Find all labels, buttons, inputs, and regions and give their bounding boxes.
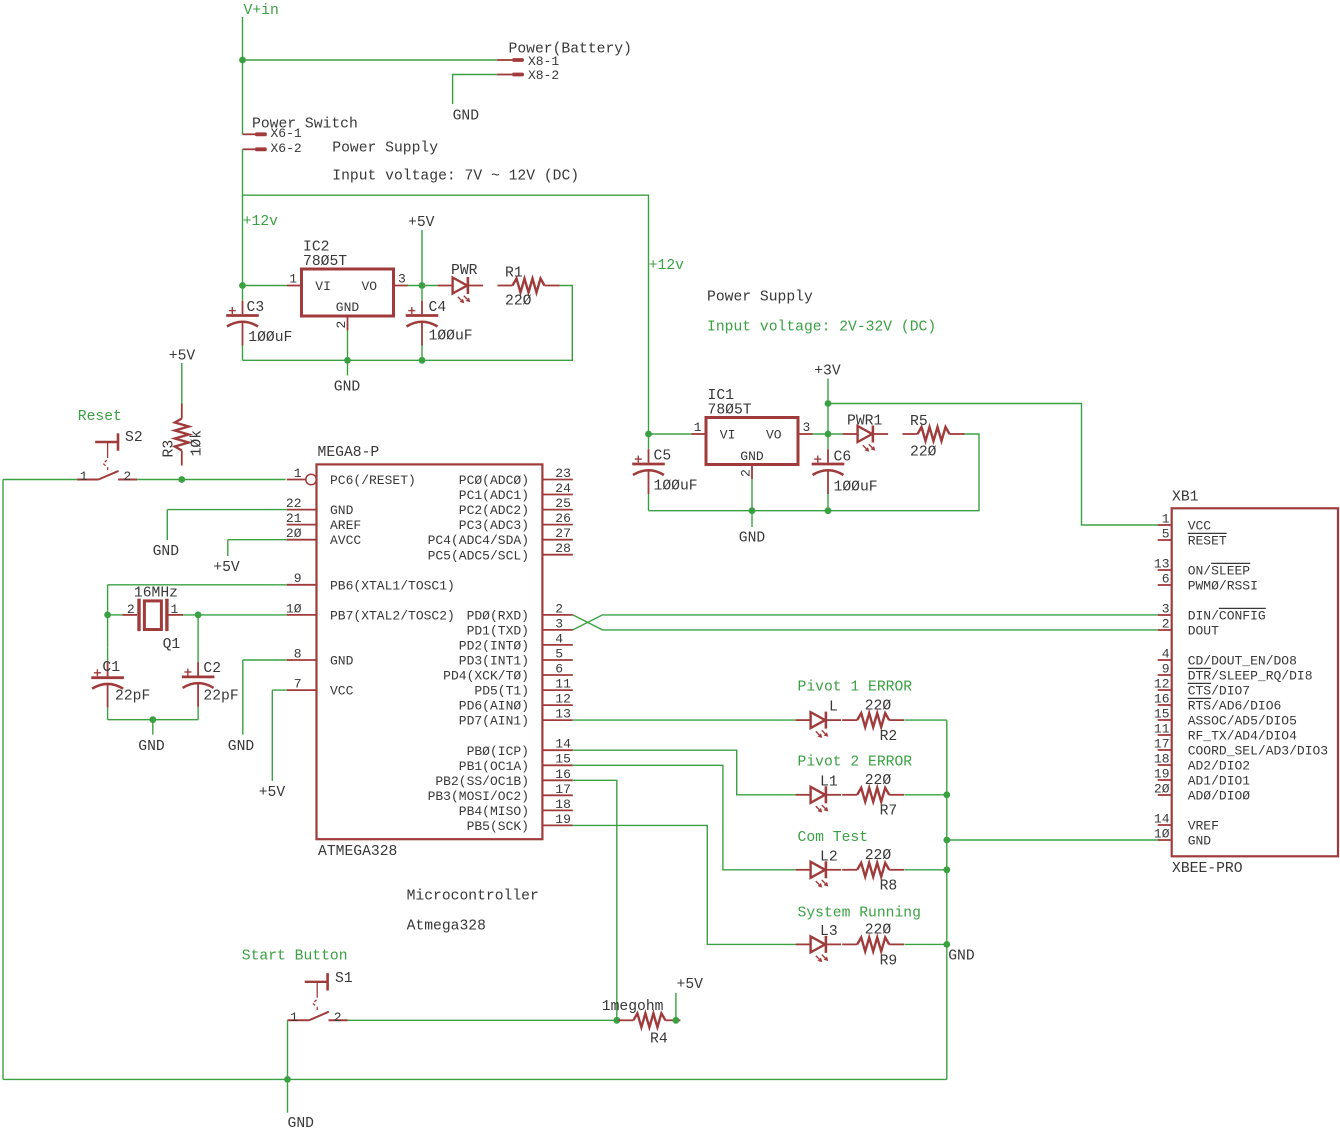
svg-text:V+in: V+in (244, 3, 279, 19)
svg-text:+12v: +12v (243, 214, 278, 230)
svg-text:R9: R9 (880, 953, 898, 969)
svg-text:IC1: IC1 (708, 388, 735, 404)
svg-text:1Ø: 1Ø (1154, 827, 1170, 842)
svg-text:15: 15 (1154, 707, 1170, 722)
svg-text:VO: VO (361, 279, 377, 294)
svg-text:CD/DOUT_EN/DO8: CD/DOUT_EN/DO8 (1188, 654, 1297, 669)
svg-text:8: 8 (294, 646, 302, 661)
svg-text:28: 28 (555, 541, 571, 556)
svg-text:9: 9 (1162, 662, 1170, 677)
svg-text:+5V: +5V (677, 977, 704, 993)
svg-text:22Ø: 22Ø (865, 698, 892, 714)
svg-text:GND: GND (153, 544, 180, 560)
svg-text:GND: GND (948, 949, 975, 965)
svg-text:R4: R4 (650, 1032, 668, 1048)
svg-text:1: 1 (1162, 512, 1170, 527)
svg-text:RF_TX/AD4/DIO4: RF_TX/AD4/DIO4 (1188, 729, 1297, 744)
svg-text:22Ø: 22Ø (865, 923, 892, 939)
svg-text:PB2(SS/OC1B): PB2(SS/OC1B) (435, 774, 529, 789)
svg-text:3: 3 (803, 420, 811, 435)
svg-text:22Ø: 22Ø (865, 773, 892, 789)
svg-text:Com Test: Com Test (798, 830, 869, 846)
svg-text:R8: R8 (880, 879, 898, 895)
svg-text:25: 25 (555, 496, 571, 511)
svg-text:5: 5 (1162, 527, 1170, 542)
svg-text:18: 18 (1154, 752, 1170, 767)
svg-text:X6-1: X6-1 (271, 126, 302, 141)
svg-text:CTS/DIO7: CTS/DIO7 (1188, 684, 1250, 699)
svg-text:AD1/DIO1: AD1/DIO1 (1188, 774, 1251, 789)
svg-text:RTS/AD6/DIO6: RTS/AD6/DIO6 (1188, 699, 1282, 714)
svg-text:XBEE-PRO: XBEE-PRO (1172, 861, 1243, 877)
svg-text:GND: GND (334, 379, 361, 395)
svg-text:2: 2 (123, 469, 131, 484)
svg-text:PB4(MISO): PB4(MISO) (459, 804, 529, 819)
svg-text:17: 17 (1154, 737, 1170, 752)
svg-text:3: 3 (555, 616, 563, 631)
svg-text:GND: GND (138, 739, 165, 755)
svg-text:3: 3 (398, 271, 406, 286)
svg-text:L1: L1 (820, 774, 838, 790)
svg-text:AREF: AREF (330, 518, 361, 533)
svg-text:22Ø: 22Ø (910, 445, 937, 461)
svg-text:X6-2: X6-2 (271, 141, 302, 156)
svg-text:PB7(XTAL2/TOSC2): PB7(XTAL2/TOSC2) (330, 608, 455, 623)
svg-text:IC2: IC2 (303, 239, 329, 255)
svg-text:X8-2: X8-2 (528, 68, 559, 83)
svg-text:+12v: +12v (649, 258, 684, 274)
svg-text:VI: VI (315, 279, 331, 294)
svg-text:GND: GND (330, 654, 354, 669)
svg-text:22Ø: 22Ø (865, 848, 892, 864)
svg-text:1: 1 (294, 466, 302, 481)
svg-text:MEGA8-P: MEGA8-P (318, 445, 380, 461)
svg-text:1ØØuF: 1ØØuF (248, 330, 292, 346)
svg-text:1ØØuF: 1ØØuF (834, 479, 878, 495)
svg-text:12: 12 (555, 692, 571, 707)
svg-text:21: 21 (286, 511, 302, 526)
svg-text:C5: C5 (654, 448, 672, 464)
svg-text:PD5(T1): PD5(T1) (474, 684, 529, 699)
svg-text:GND: GND (453, 109, 480, 125)
svg-text:19: 19 (1154, 767, 1170, 782)
svg-text:R3: R3 (162, 440, 178, 458)
svg-text:C3: C3 (247, 300, 265, 316)
svg-text:RESET: RESET (1188, 534, 1227, 549)
svg-text:PBØ(ICP): PBØ(ICP) (467, 744, 529, 759)
svg-text:+5V: +5V (169, 349, 196, 365)
svg-text:PC3(ADC3): PC3(ADC3) (459, 518, 529, 533)
svg-text:PD3(INT1): PD3(INT1) (459, 654, 529, 669)
svg-text:X8-1: X8-1 (528, 54, 559, 69)
svg-text:AVCC: AVCC (330, 533, 361, 548)
svg-text:VI: VI (720, 428, 736, 443)
svg-text:3: 3 (1162, 602, 1170, 617)
svg-text:1: 1 (290, 1010, 298, 1025)
svg-text:2Ø: 2Ø (1154, 782, 1170, 797)
svg-text:16: 16 (1154, 692, 1170, 707)
svg-text:S1: S1 (335, 971, 353, 987)
svg-text:R5: R5 (910, 414, 928, 430)
svg-text:1Ø: 1Ø (286, 601, 302, 616)
svg-text:PC2(ADC2): PC2(ADC2) (459, 503, 529, 518)
svg-text:16: 16 (555, 767, 571, 782)
svg-text:14: 14 (1154, 812, 1170, 827)
svg-text:Start Button: Start Button (242, 949, 348, 965)
svg-text:9: 9 (294, 571, 302, 586)
svg-text:PD4(XCK/TØ): PD4(XCK/TØ) (443, 669, 529, 684)
svg-text:PDØ(RXD): PDØ(RXD) (467, 608, 529, 623)
svg-text:PC6(/RESET): PC6(/RESET) (330, 473, 416, 488)
svg-text:23: 23 (555, 466, 571, 481)
svg-text:2: 2 (1162, 617, 1170, 632)
svg-text:GND: GND (330, 503, 354, 518)
svg-text:22pF: 22pF (115, 688, 150, 704)
svg-text:PD6(AINØ): PD6(AINØ) (459, 699, 529, 714)
svg-text:2: 2 (334, 1010, 342, 1025)
svg-text:18: 18 (555, 797, 571, 812)
svg-text:11: 11 (1154, 722, 1170, 737)
svg-text:22: 22 (286, 496, 302, 511)
svg-text:+5V: +5V (408, 215, 435, 231)
svg-text:R7: R7 (880, 804, 898, 820)
svg-text:PB5(SCK): PB5(SCK) (467, 819, 529, 834)
svg-text:22Ø: 22Ø (505, 293, 532, 309)
svg-text:+5V: +5V (259, 785, 286, 801)
svg-text:DOUT: DOUT (1188, 624, 1219, 639)
svg-text:ADØ/DIOØ: ADØ/DIOØ (1188, 789, 1251, 804)
svg-text:26: 26 (555, 511, 571, 526)
svg-text:16MHz: 16MHz (134, 585, 178, 601)
svg-text:System Running: System Running (798, 905, 921, 921)
svg-text:Power(Battery): Power(Battery) (509, 41, 632, 57)
svg-text:PD7(AIN1): PD7(AIN1) (459, 714, 529, 729)
svg-text:L2: L2 (820, 849, 838, 865)
svg-text:1Øk: 1Øk (190, 430, 206, 457)
svg-text:R2: R2 (880, 729, 898, 745)
svg-text:GND: GND (740, 449, 764, 464)
svg-text:ON/SLEEP: ON/SLEEP (1188, 564, 1251, 579)
svg-text:1: 1 (80, 469, 88, 484)
svg-text:Power Switch: Power Switch (252, 116, 358, 132)
svg-text:PB3(MOSI/OC2): PB3(MOSI/OC2) (428, 789, 529, 804)
svg-text:ATMEGA328: ATMEGA328 (318, 844, 397, 860)
svg-text:PC5(ADC5/SCL): PC5(ADC5/SCL) (428, 548, 529, 563)
svg-text:1ØØuF: 1ØØuF (429, 329, 473, 345)
svg-text:78Ø5T: 78Ø5T (303, 254, 347, 270)
svg-text:Pivot 1 ERROR: Pivot 1 ERROR (798, 680, 913, 696)
svg-text:24: 24 (555, 481, 571, 496)
svg-text:15: 15 (555, 752, 571, 767)
svg-text:Pivot 2 ERROR: Pivot 2 ERROR (798, 754, 913, 770)
svg-text:4: 4 (1162, 647, 1170, 662)
svg-text:1: 1 (694, 420, 702, 435)
svg-text:27: 27 (555, 526, 571, 541)
svg-text:C1: C1 (102, 660, 120, 676)
svg-text:XB1: XB1 (1172, 490, 1199, 506)
svg-text:Microcontroller: Microcontroller (407, 888, 539, 904)
svg-text:DTR/SLEEP_RQ/DI8: DTR/SLEEP_RQ/DI8 (1188, 669, 1313, 684)
svg-text:17: 17 (555, 782, 571, 797)
svg-text:PC1(ADC1): PC1(ADC1) (459, 488, 529, 503)
svg-text:22pF: 22pF (203, 689, 238, 705)
svg-text:2: 2 (127, 602, 135, 617)
svg-text:78Ø5T: 78Ø5T (708, 403, 752, 419)
svg-text:Input voltage: 7V ~ 12V (DC): Input voltage: 7V ~ 12V (DC) (332, 168, 579, 184)
svg-text:1ØØuF: 1ØØuF (654, 478, 698, 494)
svg-text:6: 6 (1162, 572, 1170, 587)
svg-text:4: 4 (555, 631, 563, 646)
svg-text:PD2(INTØ): PD2(INTØ) (459, 639, 529, 654)
svg-text:19: 19 (555, 812, 571, 827)
svg-text:Reset: Reset (78, 409, 122, 425)
svg-text:7: 7 (294, 677, 302, 692)
svg-text:11: 11 (555, 677, 571, 692)
svg-text:13: 13 (1154, 557, 1170, 572)
svg-text:GND: GND (288, 1116, 315, 1130)
svg-text:PWMØ/RSSI: PWMØ/RSSI (1188, 579, 1258, 594)
svg-text:+5V: +5V (213, 560, 240, 576)
svg-text:PB6(XTAL1/TOSC1): PB6(XTAL1/TOSC1) (330, 578, 455, 593)
svg-text:R1: R1 (505, 265, 523, 281)
svg-text:C4: C4 (429, 300, 447, 316)
svg-text:2: 2 (739, 469, 754, 477)
svg-text:GND: GND (228, 739, 255, 755)
svg-text:S2: S2 (125, 430, 143, 446)
svg-text:2Ø: 2Ø (286, 526, 302, 541)
svg-text:2: 2 (334, 321, 349, 329)
svg-text:Power Supply: Power Supply (332, 140, 438, 156)
svg-text:L: L (829, 700, 838, 716)
svg-text:DIN/CONFIG: DIN/CONFIG (1188, 609, 1266, 624)
svg-text:VREF: VREF (1188, 819, 1219, 834)
svg-text:C6: C6 (834, 449, 852, 465)
svg-text:PC4(ADC4/SDA): PC4(ADC4/SDA) (428, 533, 529, 548)
svg-text:AD2/DIO2: AD2/DIO2 (1188, 759, 1250, 774)
svg-text:2: 2 (555, 601, 563, 616)
svg-text:PWR1: PWR1 (847, 413, 882, 429)
svg-text:13: 13 (555, 707, 571, 722)
svg-text:COORD_SEL/AD3/DIO3: COORD_SEL/AD3/DIO3 (1188, 744, 1328, 759)
svg-text:Atmega328: Atmega328 (407, 919, 486, 935)
svg-text:VCC: VCC (1188, 519, 1212, 534)
svg-text:PD1(TXD): PD1(TXD) (467, 624, 529, 639)
svg-text:+3V: +3V (814, 364, 841, 380)
svg-text:VCC: VCC (330, 684, 354, 699)
svg-text:12: 12 (1154, 677, 1170, 692)
svg-text:1: 1 (171, 602, 179, 617)
svg-text:PCØ(ADCØ): PCØ(ADCØ) (459, 473, 529, 488)
svg-text:L3: L3 (820, 924, 838, 940)
svg-text:5: 5 (555, 646, 563, 661)
svg-text:6: 6 (555, 662, 563, 677)
svg-text:C2: C2 (203, 661, 221, 677)
svg-text:Input voltage: 2V-32V (DC): Input voltage: 2V-32V (DC) (707, 319, 936, 335)
svg-text:GND: GND (1188, 834, 1212, 849)
svg-text:ASSOC/AD5/DIO5: ASSOC/AD5/DIO5 (1188, 714, 1297, 729)
svg-text:Power Supply: Power Supply (707, 290, 813, 306)
svg-text:PWR: PWR (451, 263, 478, 279)
svg-text:PB1(OC1A): PB1(OC1A) (459, 759, 529, 774)
svg-text:1megohm: 1megohm (602, 999, 664, 1015)
svg-text:1: 1 (289, 271, 297, 286)
svg-text:GND: GND (336, 300, 360, 315)
svg-text:14: 14 (555, 737, 571, 752)
svg-text:VO: VO (766, 428, 782, 443)
svg-text:Q1: Q1 (163, 637, 181, 653)
svg-text:GND: GND (739, 530, 766, 546)
